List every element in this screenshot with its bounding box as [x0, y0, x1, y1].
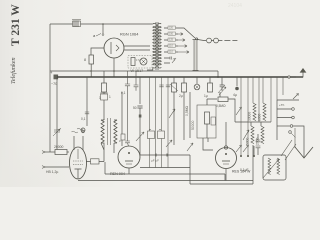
grid cap above V2 [119, 139, 130, 147]
svg-text:+Th: +Th [279, 103, 285, 107]
grid wires between V2 V3 [140, 138, 213, 168]
svg-text:RGN 1064: RGN 1064 [120, 32, 139, 37]
svg-text:0,5MΩ: 0,5MΩ [216, 104, 226, 108]
wire: mains line with fuses [195, 38, 237, 43]
wire x140 drop [139, 77, 141, 104]
svg-text:T 231 W: T 231 W [10, 4, 22, 46]
bias arrow [166, 140, 172, 147]
resistor R3 hanging [170, 77, 178, 92]
svg-text:0,1µF: 0,1µF [240, 168, 249, 172]
wire: tube cathode drop [113, 58, 115, 77]
svg-text:1: 1 [109, 95, 111, 99]
resistor R2 hanging [99, 71, 107, 100]
antenna arrow [288, 68, 307, 78]
chassis bus [57, 76, 303, 78]
switch box S1 [100, 93, 111, 100]
capacitor C4 with arrows [218, 77, 226, 95]
wire: x87 drop [86, 77, 88, 126]
wire: anode top feed [50, 23, 147, 25]
wire: R1 to bus [90, 64, 92, 77]
resistor R1 [84, 55, 94, 64]
terminal group right [277, 94, 299, 141]
svg-text:Telefunken: Telefunken [10, 57, 17, 84]
output tube RES164 (V3) [216, 146, 251, 174]
svg-text:30000: 30000 [248, 112, 252, 121]
wire: hv line [50, 71, 218, 77]
interstage transformer secondary [114, 120, 117, 143]
rectifier tube RGN1064 [104, 32, 139, 59]
resistor net lower 2 [256, 126, 265, 145]
wire: coil connections [101, 119, 117, 153]
wire: left duo verticals [56, 77, 58, 150]
svg-text:5000: 5000 [246, 137, 250, 145]
lamp symbol hanging [194, 77, 200, 90]
wire x175 drop [173, 92, 175, 145]
speaker leads [281, 140, 296, 160]
wire comb to lower network [241, 77, 283, 157]
svg-text:50: 50 [133, 106, 137, 110]
grid cap symbol [81, 112, 89, 121]
svg-text:125: 125 [169, 39, 174, 42]
terminal lower right [289, 131, 296, 138]
resistor label 0.5M [185, 105, 189, 116]
grid stopper resistor [42, 145, 69, 155]
grid resistor box [121, 134, 125, 140]
wire: V3 anode up [225, 122, 227, 146]
ac arrows bottom [187, 143, 255, 157]
resistor R6 [216, 97, 228, 108]
svg-text:0,5MΩ: 0,5MΩ [185, 105, 189, 116]
anode resistor right of V1 [87, 143, 105, 164]
choke Dr2 [258, 103, 267, 121]
resistor R4 hanging [179, 77, 187, 98]
caps feeding output transformer [256, 134, 261, 155]
svg-text:150: 150 [169, 33, 174, 36]
dial lamp box W1517 [128, 56, 152, 74]
volume arrow [136, 114, 144, 155]
divider arrow left [236, 107, 242, 115]
regen arrow [169, 109, 175, 118]
mains selector switch blade [178, 28, 195, 38]
transformer core [156, 22, 158, 70]
choke Dr1 [248, 103, 257, 121]
speaker arrow down [290, 125, 313, 158]
svg-text:2µ: 2µ [179, 94, 183, 98]
svg-text:20000: 20000 [54, 145, 64, 149]
wire: V2 anode line [140, 154, 190, 163]
svg-text:HB 1,2µ: HB 1,2µ [46, 170, 58, 174]
wire: left vertical drop [49, 24, 51, 152]
resistor net lower 1 [246, 126, 255, 145]
wire: tube filament leads [124, 46, 150, 50]
choke L1 on top wire [72, 20, 81, 28]
svg-text:8: 8 [84, 58, 86, 62]
wire: feed to R6 [207, 92, 220, 99]
mains transformer primary winding [153, 23, 157, 68]
svg-text:µF µF: µF µF [151, 159, 159, 163]
label 0,1uF bottom left of transformer [240, 168, 249, 172]
interstage transformer primary [101, 120, 104, 143]
wire x183 drop [183, 92, 185, 140]
transformer lower taps [164, 57, 176, 64]
svg-text:8000: 8000 [258, 113, 262, 121]
node a terminal [93, 24, 104, 38]
heater caps on verticals [159, 85, 170, 87]
heavy mains drop [194, 40, 197, 71]
block capacitor Bk1 [148, 130, 155, 139]
divider arrow lower [243, 130, 249, 140]
svg-text:110: 110 [169, 45, 173, 48]
audion tube REN904 (triode V1) [70, 130, 87, 179]
svg-text:~70: ~70 [51, 82, 57, 86]
wire: primary top/bottom [147, 24, 153, 70]
svg-text:0,1: 0,1 [81, 117, 86, 121]
capacitor C2 and grid line to V2 [121, 71, 130, 141]
resistor label 50000 [191, 120, 195, 130]
cathode line [42, 166, 69, 174]
wire: tube anode lead left [91, 48, 104, 55]
wire x122 drop [121, 92, 123, 146]
driver tube REN904 (V2) [110, 146, 140, 176]
coupling capacitor C5 [133, 106, 143, 114]
svg-text:50000: 50000 [191, 120, 195, 130]
wire: filament/bias verticals [150, 77, 169, 168]
svg-text:4µ: 4µ [233, 93, 237, 97]
paper background [0, 0, 320, 187]
svg-text:2000: 2000 [256, 137, 260, 145]
voltage selector taps [164, 26, 189, 54]
title Telefunken [10, 57, 17, 84]
title T 231 W [10, 4, 22, 46]
svg-text:110: 110 [169, 51, 173, 54]
block capacitor Bk2 [158, 130, 165, 139]
svg-text:220: 220 [169, 27, 174, 30]
output transformer [263, 155, 286, 180]
electrolytic dot [233, 77, 239, 97]
mains transformer secondary winding [157, 23, 161, 68]
wire x104 [103, 100, 105, 120]
svg-text:µ: µ [119, 139, 121, 143]
detector block [197, 99, 216, 138]
interstage transformer core [108, 118, 111, 145]
wire x190 drop [189, 92, 191, 138]
wire: R6 to net [228, 99, 235, 122]
svg-text:1µ: 1µ [204, 94, 208, 98]
resistor R5 hanging [204, 77, 213, 98]
pickup terminal [77, 128, 85, 132]
nested bottom wires [78, 145, 253, 184]
wire: network joins [235, 122, 271, 126]
electrolytic C1 [50, 70, 58, 86]
capacitor C3 hanging [134, 71, 139, 91]
trimmer capacitor [53, 128, 61, 136]
svg-text:24104: 24104 [228, 3, 242, 9]
faint stamp marks [228, 3, 242, 9]
